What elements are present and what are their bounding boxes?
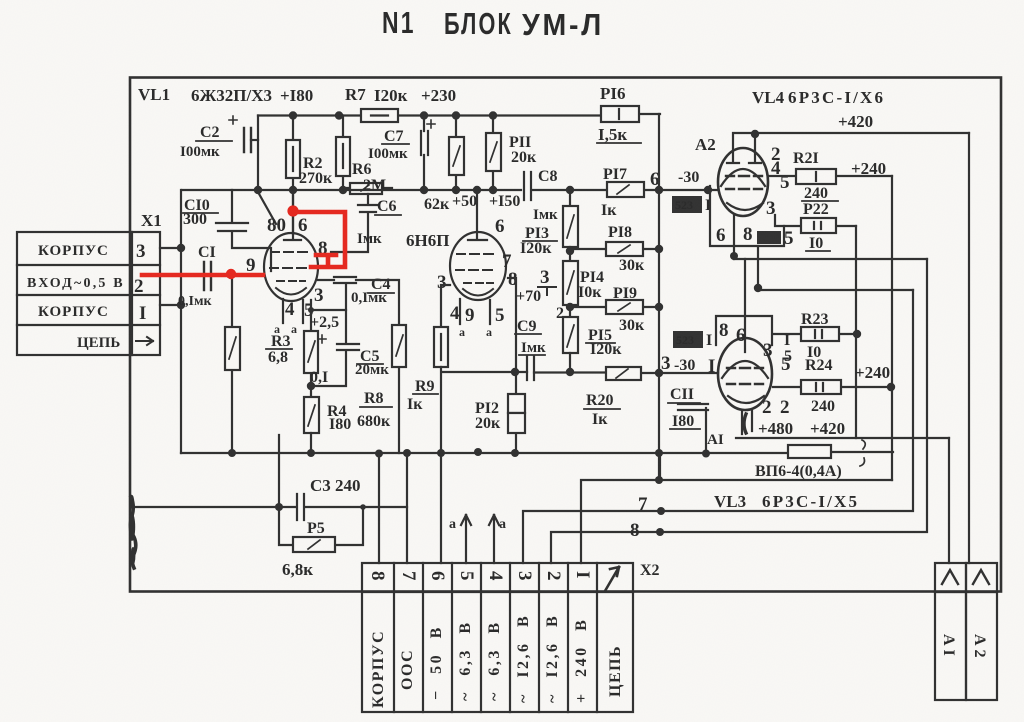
- wire VL3 top pin stubs: [716, 316, 772, 345]
- wire top supply bus: [258, 114, 660, 116]
- wire X1 pin1 to ground rail: [160, 304, 181, 306]
- heater arrow col5: [461, 515, 471, 563]
- connector A1 box: [935, 563, 966, 700]
- cathode network VL1: resistor R3: [304, 300, 318, 397]
- resistor R21: [768, 169, 892, 184]
- connector X1 table: [17, 232, 160, 355]
- fuse VP6-4: [788, 445, 831, 458]
- resistor R22: [775, 215, 856, 233]
- wire ground to line A stub: [659, 453, 661, 480]
- VL4 bottom routing box: [710, 186, 784, 246]
- resistor R20: [606, 367, 641, 380]
- resistor R2: [286, 116, 300, 235]
- node dots top bus: [289, 111, 497, 119]
- tube V2 pin labels: [406, 216, 518, 339]
- resistor R19: [570, 300, 659, 314]
- tube VL1 pin labels: [246, 215, 328, 336]
- resistor R16: [601, 106, 639, 122]
- wire C3 upper stub: [278, 435, 280, 507]
- node 3 +70 marker: [538, 287, 556, 295]
- dark box marker near VL3 grid: [673, 331, 712, 349]
- wire X2 col8 to ground bus: [378, 453, 380, 563]
- ground bus bottom: [181, 452, 893, 453]
- title: [382, 5, 604, 43]
- capacitor C7: [421, 116, 435, 191]
- resistor R8: [356, 280, 406, 453]
- wire V2 pin3 to R9: [441, 285, 450, 327]
- ground rail left vertical: [180, 190, 182, 453]
- wire diagonal to tube top: [258, 192, 276, 224]
- resistor R5: [279, 507, 363, 552]
- capacitor C1: [160, 262, 263, 290]
- wire +240 vertical: [891, 176, 893, 480]
- X2 arrow cell: [605, 567, 619, 591]
- capacitor C9: [527, 356, 534, 380]
- resistor R11: [486, 116, 501, 191]
- wire line 7: [523, 290, 913, 563]
- resistor R10 vertical: [449, 116, 464, 191]
- node dots middle bus: [254, 186, 712, 194]
- long vertical feed line: [658, 114, 660, 480]
- capacitor C5 loop: [311, 310, 359, 386]
- resistor R23: [773, 327, 857, 341]
- left border ink blob: [130, 497, 135, 568]
- capacitor C2: [229, 116, 258, 152]
- dark blob near VL4 pins: [757, 231, 781, 244]
- wire X1 pin3 to ground rail: [160, 247, 181, 249]
- capacitor C10: [216, 190, 271, 271]
- resistor R7: [361, 109, 398, 122]
- heater arrow col4: [489, 515, 499, 563]
- wire grid line VL3 row: [442, 372, 718, 373]
- resistor R1: [225, 275, 240, 453]
- connector A2 box: [966, 563, 997, 700]
- capacitor C11: [678, 404, 708, 410]
- resistor R6 2M: [336, 116, 350, 189]
- resistor R15: [563, 317, 578, 372]
- X1 arrow cell: [136, 337, 153, 345]
- top header labels: [138, 85, 456, 105]
- wire X2 col7 OOC: [406, 453, 408, 563]
- wire R22/R23 junction vertical: [855, 226, 857, 438]
- resistor R17: [607, 182, 644, 197]
- dark box marker near VL4 grid: [672, 196, 711, 214]
- wire VL3 pin feed: [744, 259, 746, 352]
- wire +480 rail: [736, 437, 949, 439]
- connector X2 table: [362, 563, 633, 712]
- tube VL3 6P3S: [718, 338, 772, 434]
- wire line8 row: [734, 258, 927, 260]
- main schematic border frame: [130, 78, 1001, 592]
- resistor R9: [434, 327, 448, 563]
- resistor R14: [563, 261, 578, 317]
- wire C2 to buses: [257, 116, 259, 191]
- wire +420 rail: [735, 132, 969, 134]
- wire VL4 cathode to line8: [733, 215, 735, 259]
- resistor R12: [508, 372, 525, 453]
- voltage labels middle bus: [424, 193, 520, 213]
- wire down to A1: [948, 438, 950, 563]
- resistor small series (R6 body): [343, 183, 392, 194]
- tube VL4 6P3S: [718, 133, 768, 216]
- resistor R24: [773, 380, 892, 394]
- wire V2 pin8 down: [508, 278, 516, 372]
- wire line 8: [551, 259, 927, 563]
- capacitor C4: [318, 277, 356, 310]
- wire +420 down to A2: [968, 133, 970, 563]
- capacitor C6: [331, 194, 378, 252]
- tube V2 6N6P: [450, 190, 506, 324]
- capacitor C3: [131, 494, 407, 520]
- red input trace: [142, 212, 345, 275]
- resistor chain R13: [563, 190, 578, 261]
- wire line7 row: [758, 289, 913, 291]
- wire VL3 cathode to ground bus: [705, 408, 707, 453]
- wire +240 feed from X2 col1: [581, 480, 892, 563]
- wire line7 stub: [757, 246, 759, 290]
- resistor R18: [570, 242, 659, 256]
- capacitor C8: [524, 172, 531, 200]
- tube VL1 6Zh32P: [264, 190, 318, 323]
- resistor R4: [304, 397, 319, 453]
- tube VL3 designation: [714, 492, 859, 511]
- wire middle bus: [182, 189, 718, 191]
